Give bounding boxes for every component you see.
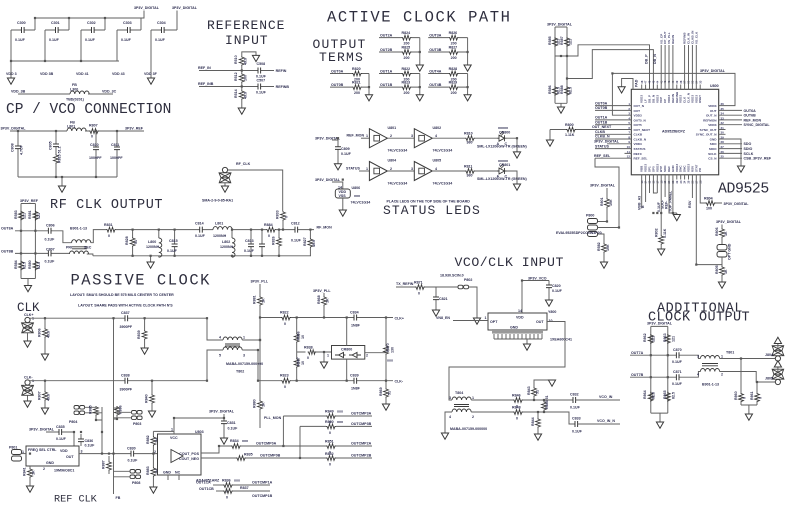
svg-text:REF_MON: REF_MON	[347, 133, 365, 137]
svg-text:3: 3	[411, 167, 413, 171]
svg-text:0.1UF: 0.1UF	[291, 239, 302, 243]
inductor L801 series	[213, 222, 232, 239]
svg-text:3P3V_REF: 3P3V_REF	[125, 127, 144, 131]
svg-text:OUT8B: OUT8B	[1, 250, 14, 254]
AD9525 left pin numbers	[627, 102, 631, 159]
AD9525 bottom pin stubs	[642, 175, 701, 180]
svg-text:360: 360	[467, 141, 473, 145]
wire col2 upper rail	[419, 38, 421, 65]
inductor L802 shunt	[220, 230, 235, 258]
capacitor C835	[29, 425, 74, 446]
svg-text:DB_P: DB_P	[645, 54, 649, 64]
svg-text:0: 0	[285, 216, 289, 218]
wire vertical	[259, 284, 261, 428]
svg-text:ACTIVE CLOCK PATH: ACTIVE CLOCK PATH	[327, 9, 511, 27]
svg-text:3P3V_PLL: 3P3V_PLL	[251, 280, 269, 284]
svg-text:T804: T804	[455, 391, 463, 395]
svg-text:R807: R807	[38, 391, 42, 400]
svg-text:R823: R823	[280, 374, 289, 378]
wire P802 ground	[469, 287, 477, 318]
svg-text:OPT GND: OPT GND	[728, 243, 732, 260]
svg-text:R885: R885	[89, 405, 93, 414]
svg-text:49.9: 49.9	[244, 58, 248, 65]
capacitor C834 series	[350, 311, 361, 328]
svg-text:200: 200	[404, 91, 410, 95]
svg-text:FB: FB	[116, 496, 121, 500]
inductor L801 ferrite	[10, 121, 89, 132]
svg-text:OUTCMP2B: OUTCMP2B	[351, 454, 372, 458]
capacitor C832 series	[570, 393, 620, 410]
ground	[148, 411, 155, 417]
svg-text:R851: R851	[325, 440, 334, 444]
svg-text:R512: R512	[234, 72, 238, 81]
ground	[737, 166, 744, 172]
resistor R840	[145, 381, 155, 411]
ground	[150, 487, 157, 493]
svg-text:R587: R587	[560, 36, 564, 45]
resistor R860	[734, 391, 747, 402]
ground	[656, 422, 663, 428]
resistor R512 100	[234, 66, 248, 83]
svg-text:REFIN: REFIN	[671, 34, 675, 44]
resistor R584	[14, 260, 27, 270]
svg-text:2: 2	[472, 415, 474, 419]
svg-text:TBD(0201): TBD(0201)	[66, 98, 85, 102]
svg-text:3: 3	[81, 450, 83, 454]
svg-text:OUT: OUT	[66, 455, 74, 459]
svg-text:100: 100	[244, 75, 248, 81]
svg-text:SEC: SEC	[84, 246, 92, 250]
svg-text:U803: U803	[195, 430, 204, 434]
resistor R822 term	[379, 67, 420, 81]
ground	[548, 380, 555, 386]
oscillator Y801 VCXO	[485, 309, 572, 344]
wire top pin long leads	[661, 45, 696, 85]
svg-text:FREQ SEL CTRL: FREQ SEL CTRL	[28, 448, 57, 452]
svg-text:R839: R839	[137, 330, 141, 339]
ground	[546, 140, 553, 146]
svg-text:51: 51	[387, 391, 391, 395]
svg-text:0: 0	[108, 234, 110, 238]
svg-text:121: 121	[651, 336, 655, 342]
resistor R827 shunt	[303, 230, 316, 256]
svg-text:T802: T802	[236, 370, 244, 374]
svg-text:27: 27	[721, 145, 725, 149]
svg-text:C821: C821	[439, 297, 448, 301]
ground	[365, 95, 372, 101]
svg-text:0.1UF: 0.1UF	[128, 459, 139, 463]
svg-text:121: 121	[569, 39, 573, 45]
resistor R887	[102, 456, 112, 474]
wire bottom pin b8	[668, 180, 670, 198]
svg-text:RF CLK OUTPUT: RF CLK OUTPUT	[50, 198, 163, 213]
ground	[238, 108, 245, 114]
resistor R583	[14, 210, 27, 220]
svg-text:R836: R836	[222, 479, 231, 483]
svg-text:STATUS: STATUS	[634, 147, 646, 151]
wire CLK+ row	[30, 318, 223, 340]
wire T804 bottom left	[445, 412, 452, 433]
svg-text:SMA-2-9-0-85-RA1: SMA-2-9-0-85-RA1	[202, 199, 233, 203]
wire col3 lower rail	[467, 74, 469, 95]
svg-text:R826: R826	[449, 31, 458, 35]
svg-text:1: 1	[327, 354, 329, 358]
svg-text:0.1UF: 0.1UF	[672, 360, 683, 364]
svg-text:C820: C820	[552, 284, 561, 288]
svg-text:U802: U802	[433, 126, 442, 130]
svg-text:OUT2B: OUT2B	[380, 48, 393, 52]
diode CR801 LED	[477, 126, 527, 152]
svg-text:SYNC_OUT: SYNC_OUT	[700, 128, 717, 132]
svg-text:11: 11	[627, 150, 631, 154]
svg-text:C300: C300	[17, 21, 26, 25]
wire T801 top to J804	[720, 358, 776, 360]
svg-text:OUT1CB: OUT1CB	[199, 487, 214, 491]
svg-text:0.1UF: 0.1UF	[244, 249, 255, 253]
capacitor C301	[45, 21, 69, 42]
resistor R810	[432, 132, 497, 145]
svg-text:3: 3	[411, 134, 413, 138]
svg-text:J804: J804	[765, 353, 773, 357]
wire buffer input row2	[359, 170, 369, 172]
svg-text:OUT1B: OUT1B	[380, 83, 393, 87]
svg-text:R867: R867	[297, 357, 301, 366]
wire pin27 SDIO	[726, 148, 743, 150]
svg-text:REFIN: REFIN	[276, 69, 287, 73]
resistor R822 series	[260, 311, 393, 327]
ground	[26, 486, 33, 492]
svg-text:0.1UF: 0.1UF	[228, 427, 239, 431]
svg-text:29: 29	[721, 135, 725, 139]
wire bottom pin b15 long to J801	[696, 180, 722, 265]
svg-text:82.5: 82.5	[37, 262, 41, 269]
svg-text:121: 121	[37, 213, 41, 219]
svg-text:4.7UF: 4.7UF	[20, 144, 24, 155]
svg-text:R882: R882	[146, 435, 150, 444]
capacitor C508	[256, 62, 267, 79]
op-amp U804 buffer	[366, 159, 407, 186]
ground	[24, 341, 31, 347]
svg-text:C835: C835	[56, 425, 65, 429]
wire COUT_NEG	[201, 457, 236, 459]
resistor R849	[283, 410, 372, 425]
svg-text:0: 0	[329, 431, 331, 435]
svg-text:C811: C811	[111, 143, 119, 147]
resistor R867 rail	[294, 357, 305, 368]
resistor R805	[715, 257, 728, 282]
wire to ground	[10, 61, 12, 78]
svg-text:R848: R848	[512, 406, 521, 410]
capacitor C839 series	[350, 374, 361, 391]
inductor L800 shunt	[146, 230, 162, 258]
svg-text:1M: 1M	[155, 469, 159, 474]
svg-text:2: 2	[390, 134, 392, 138]
svg-text:REFMON: REFMON	[703, 118, 717, 122]
svg-text:R860: R860	[734, 391, 738, 400]
wire REF_IN row	[199, 70, 274, 72]
svg-text:0: 0	[329, 463, 331, 467]
svg-text:xxx: xxx	[337, 420, 343, 424]
svg-text:34: 34	[721, 112, 725, 116]
ground	[523, 344, 530, 350]
svg-text:0.1UF: 0.1UF	[195, 234, 206, 238]
svg-text:OUT_N: OUT_N	[634, 104, 645, 108]
svg-text:0.1UF: 0.1UF	[49, 38, 60, 42]
svg-text:STATUS LEDS: STATUS LEDS	[383, 203, 481, 218]
svg-text:SDO: SDO	[710, 142, 717, 146]
svg-text:VDD 3F: VDD 3F	[144, 72, 158, 76]
capacitor C821	[433, 287, 448, 310]
capacitor C833 series	[572, 417, 620, 434]
wire filter bottom bus	[87, 254, 311, 256]
svg-text:VDD3: VDD3	[708, 123, 717, 127]
svg-text:R582: R582	[597, 242, 601, 251]
svg-text:B: B	[641, 205, 645, 208]
svg-text:74LVC1G34: 74LVC1G34	[388, 149, 408, 153]
svg-text:R845 51: R845 51	[545, 395, 549, 409]
resistor R801	[590, 184, 616, 222]
ground	[334, 164, 341, 170]
svg-text:C302: C302	[87, 21, 96, 25]
ground	[718, 282, 725, 288]
svg-text:B901-1-13: B901-1-13	[702, 383, 719, 387]
svg-text:VCC: VCC	[170, 436, 178, 440]
ground	[41, 408, 48, 414]
connector P800	[586, 214, 598, 237]
wire pin12 REF_SEL	[595, 157, 625, 159]
svg-text:1K: 1K	[724, 231, 728, 236]
ground	[339, 210, 346, 216]
svg-text:25: 25	[721, 155, 725, 159]
resistor R824 term	[379, 31, 420, 45]
resistor R851	[325, 440, 372, 455]
svg-text:32: 32	[721, 121, 725, 125]
ground	[320, 362, 327, 368]
svg-text:VDD 41: VDD 41	[76, 72, 89, 76]
ground	[441, 433, 448, 439]
connector CLK- SMA	[22, 376, 35, 402]
svg-text:R881: R881	[253, 295, 257, 304]
resistor R807	[89, 124, 144, 139]
svg-text:0.1UF: 0.1UF	[85, 444, 96, 448]
svg-text:R583: R583	[14, 210, 18, 219]
svg-text:3P3V_DIGITAL: 3P3V_DIGITAL	[29, 428, 55, 432]
resistor R510 49.9	[234, 55, 248, 66]
wire bottom gnd bus	[653, 180, 676, 215]
svg-text:3900PF: 3900PF	[120, 388, 133, 392]
svg-text:130: 130	[390, 347, 394, 353]
svg-text:2: 2	[390, 167, 392, 171]
svg-text:VDD 43: VDD 43	[112, 72, 125, 76]
svg-text:OUT4B: OUT4B	[429, 83, 442, 87]
wire network rails	[21, 204, 35, 286]
svg-text:100: 100	[706, 207, 712, 211]
svg-text:82.5: 82.5	[569, 87, 573, 94]
resistor R846	[471, 394, 573, 409]
ground	[658, 249, 665, 255]
svg-text:C303: C303	[123, 21, 132, 25]
capacitor C871	[630, 370, 700, 386]
svg-text:3P3V_DIGITAL: 3P3V_DIGITAL	[700, 69, 726, 73]
svg-text:STATUS: STATUS	[595, 144, 609, 148]
wire bottom pin b1	[641, 180, 643, 209]
svg-text:C836: C836	[85, 439, 94, 443]
capacitor C812 series	[291, 222, 302, 243]
capacitor C300	[11, 21, 35, 42]
svg-text:xxx: xxx	[242, 439, 248, 443]
svg-text:R835: R835	[244, 453, 253, 457]
op-amp U806 spare buffer	[315, 178, 370, 210]
svg-text:J805: J805	[765, 377, 773, 381]
svg-text:10: 10	[627, 145, 631, 149]
resistor R836	[196, 479, 273, 494]
svg-text:OUT_N: OUT_N	[706, 114, 717, 118]
svg-text:3P3V_DIGITAL: 3P3V_DIGITAL	[590, 184, 616, 188]
svg-text:0.1UF: 0.1UF	[167, 249, 178, 253]
capacitor C817 shunt	[259, 230, 265, 256]
oscillator Y800	[22, 446, 83, 473]
resistor R885	[89, 405, 102, 420]
svg-text:R852: R852	[325, 452, 334, 456]
resistor R823 series	[280, 374, 393, 390]
resistor R588	[560, 85, 573, 96]
svg-text:14: 14	[518, 309, 522, 313]
ground	[24, 286, 31, 292]
svg-text:R862: R862	[643, 333, 647, 342]
AD9525 top pin names rotated	[640, 91, 703, 103]
ground	[416, 95, 423, 101]
svg-text:xxx: xxx	[387, 359, 393, 363]
resistor R833	[276, 210, 289, 229]
svg-text:R834: R834	[230, 439, 239, 443]
svg-text:35: 35	[721, 107, 725, 111]
resistor R881	[253, 295, 266, 306]
ground	[141, 348, 148, 354]
resistor R869 below	[379, 381, 392, 404]
resistor R580	[28, 260, 41, 270]
resistor R800 on pin6	[550, 123, 625, 137]
svg-text:3P3V_PLL: 3P3V_PLL	[313, 289, 331, 293]
capacitor C813 shunt	[244, 230, 255, 256]
svg-text:RSV: RSV	[688, 200, 692, 208]
wire tap row1	[282, 416, 284, 446]
op-amp U805 buffer	[411, 159, 452, 186]
wire top rail	[35, 11, 144, 31]
connector P802	[458, 278, 472, 289]
svg-text:0.1UF: 0.1UF	[121, 38, 132, 42]
svg-text:U801: U801	[388, 126, 397, 130]
svg-text:R850: R850	[325, 420, 334, 424]
ground	[7, 78, 14, 84]
wire tap row2	[299, 426, 301, 458]
svg-text:R833: R833	[276, 210, 280, 219]
svg-text:51: 51	[134, 240, 138, 244]
svg-text:R805: R805	[715, 265, 719, 274]
transformer T801	[697, 351, 734, 387]
svg-text:3P3V_REF: 3P3V_REF	[20, 199, 39, 203]
AD9525 top pin stubs	[642, 85, 701, 90]
wire 3P3V rail to pin36	[612, 73, 735, 105]
svg-text:R841: R841	[23, 467, 27, 476]
AD9525 bottom pin names rotated	[640, 164, 703, 172]
connector P801	[9, 446, 26, 462]
svg-text:200: 200	[451, 56, 457, 60]
svg-text:10K: 10K	[609, 199, 613, 206]
resistor R848	[471, 406, 575, 425]
svg-text:C833: C833	[572, 417, 581, 421]
svg-text:C808: C808	[11, 143, 15, 152]
svg-text:OUT2A: OUT2A	[380, 34, 393, 38]
svg-text:0: 0	[758, 397, 762, 399]
svg-text:U804: U804	[388, 159, 397, 163]
ground	[220, 438, 227, 444]
svg-text:OUT1B: OUT1B	[595, 120, 608, 124]
svg-text:1K: 1K	[31, 470, 35, 475]
svg-text:C814: C814	[195, 222, 204, 226]
ground	[24, 401, 31, 407]
svg-text:TERMS: TERMS	[319, 50, 364, 65]
svg-text:R843: R843	[527, 386, 531, 395]
svg-text:VS_CLK: VS_CLK	[694, 31, 698, 44]
svg-text:3P3V_DIGITAL: 3P3V_DIGITAL	[547, 23, 573, 27]
svg-text:49.9: 49.9	[312, 240, 316, 247]
svg-text:31: 31	[721, 126, 725, 130]
svg-text:OUT0B: OUT0B	[595, 106, 608, 110]
ground	[147, 262, 154, 268]
svg-text:DB_N: DB_N	[653, 54, 657, 64]
ground	[513, 184, 520, 190]
wire filter top bus	[91, 230, 314, 243]
resistor R821 term	[330, 81, 369, 95]
svg-text:0: 0	[268, 234, 270, 238]
svg-text:REF-: REF-	[665, 200, 669, 209]
wire load taps	[741, 359, 757, 415]
svg-text:0.1UF: 0.1UF	[15, 38, 26, 42]
wire P800 pin3 to R582	[598, 234, 605, 243]
wire COUT_POS	[201, 446, 231, 453]
svg-text:OUT0A: OUT0A	[331, 70, 344, 74]
svg-text:1N8F: 1N8F	[351, 387, 361, 391]
wire pin32 SYNC	[726, 124, 743, 126]
svg-text:C870: C870	[673, 348, 682, 352]
svg-text:4: 4	[697, 373, 699, 377]
wire pin2 OUT0B	[595, 109, 625, 111]
svg-text:CP / VCO CONNECTION: CP / VCO CONNECTION	[6, 102, 171, 118]
svg-text:PASSIVE CLOCK: PASSIVE CLOCK	[71, 272, 211, 290]
svg-text:SYNC_DIGITAL: SYNC_DIGITAL	[744, 123, 771, 127]
svg-text:R870: R870	[386, 343, 390, 352]
svg-text:3P3V_DIGITAL: 3P3V_DIGITAL	[716, 220, 742, 224]
wire R800 to ground	[549, 130, 551, 141]
connector CLK+ SMA	[22, 313, 35, 341]
svg-text:C839: C839	[350, 374, 359, 378]
svg-text:VSS: VSS	[339, 194, 347, 198]
wire bottom pin b14 RSV	[691, 180, 693, 199]
svg-text:R864: R864	[643, 390, 647, 399]
svg-text:4: 4	[449, 415, 451, 419]
svg-text:R887: R887	[102, 460, 106, 469]
svg-text:1: 1	[366, 134, 368, 138]
svg-text:OUT0B: OUT0B	[331, 83, 344, 87]
svg-text:R828: R828	[449, 67, 458, 71]
svg-text:C871: C871	[673, 370, 682, 374]
svg-text:VCO/CLK INPUT: VCO/CLK INPUT	[455, 255, 564, 270]
ground	[221, 186, 228, 192]
svg-text:0.1UF: 0.1UF	[570, 406, 581, 410]
svg-text:L801: L801	[67, 125, 75, 129]
svg-text:360: 360	[467, 173, 473, 177]
svg-text:R800: R800	[565, 123, 574, 127]
